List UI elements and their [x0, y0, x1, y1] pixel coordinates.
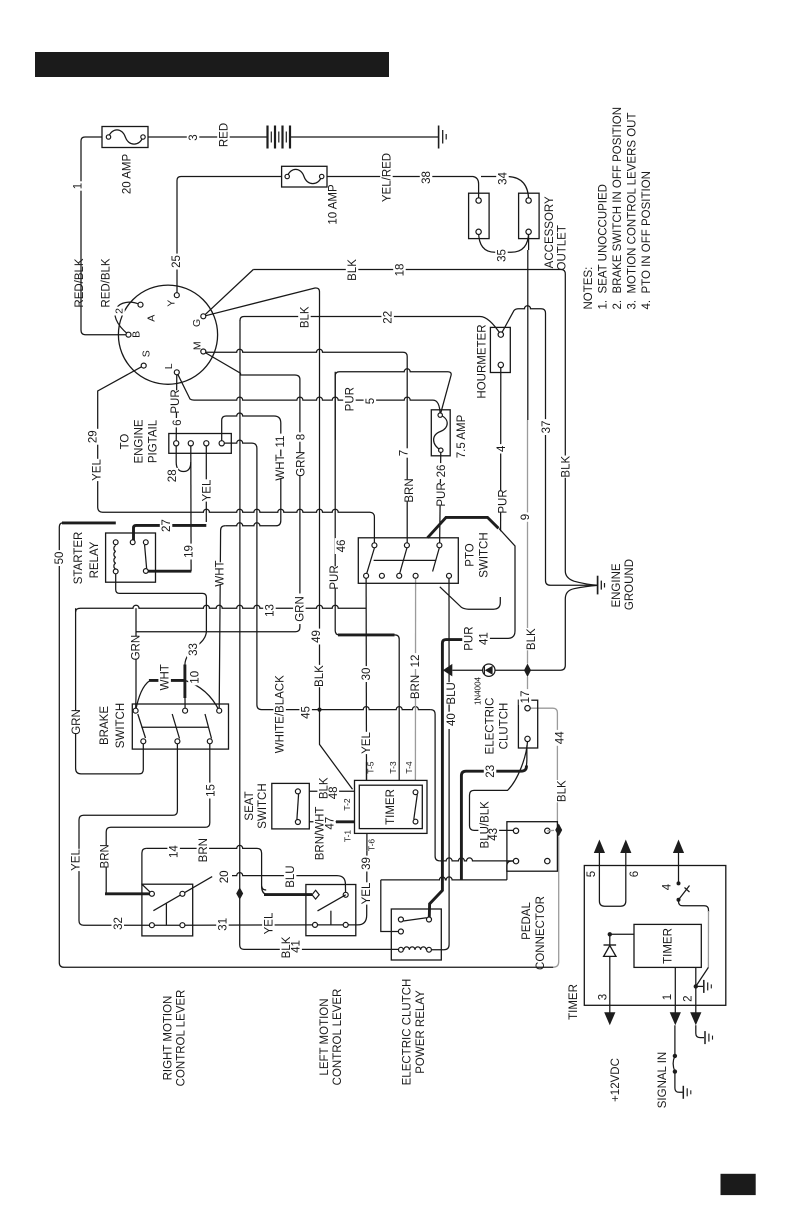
svg-text:GRN: GRN — [294, 596, 306, 622]
svg-text:G: G — [191, 319, 203, 327]
svg-text:GRN: GRN — [296, 451, 308, 477]
svg-text:48: 48 — [328, 786, 340, 799]
wire 20 BLU: right lever blade to left lever TR — [153, 877, 212, 911]
wire 1 RED/BLK fuse20 to ignition B — [81, 137, 129, 335]
wire YEL 27 pigtail pin3 to relay — [205, 446, 207, 523]
diamond junction on gray 9 wire — [524, 664, 531, 678]
wire 29 YEL ignition S to PTO top pin1 — [98, 366, 144, 513]
svg-text:RED/BLK: RED/BLK — [74, 258, 86, 308]
svg-text:1. SEAT UNOCCUPIED: 1. SEAT UNOCCUPIED — [598, 184, 610, 309]
svg-text:BRN/WHT: BRN/WHT — [315, 807, 327, 861]
svg-text:RED/BLK: RED/BLK — [101, 258, 113, 308]
svg-text:3: 3 — [188, 134, 200, 140]
svg-text:41: 41 — [291, 940, 303, 953]
svg-text:50: 50 — [54, 552, 66, 565]
svg-text:7.5 AMP: 7.5 AMP — [456, 414, 468, 458]
svg-text:BLK: BLK — [347, 259, 359, 281]
svg-text:T-2: T-2 — [342, 798, 352, 811]
wire 14 BRN: right lever to left lever — [142, 848, 152, 893]
svg-text:NOTES:: NOTES: — [583, 267, 595, 310]
svg-text:15: 15 — [205, 784, 217, 797]
svg-text:2: 2 — [683, 995, 695, 1001]
svg-text:37: 37 — [541, 421, 553, 434]
wire 49 BLK ignition G to timer T-2 — [203, 288, 352, 789]
svg-text:GROUND: GROUND — [624, 559, 636, 610]
fuse F1 20 AMP — [102, 127, 148, 148]
svg-text:10 AMP: 10 AMP — [328, 184, 340, 225]
wire 22 BLK ignition to hourmeter — [240, 317, 501, 335]
wire 25 fuse10 to ignition Y — [177, 177, 282, 296]
engine pigtail connector J1 — [169, 434, 232, 454]
svg-text:WHT: WHT — [275, 454, 287, 480]
battery B1 — [266, 126, 268, 149]
svg-text:4: 4 — [496, 445, 508, 452]
svg-text:2. BRAKE SWITCH IN OFF POSITI: 2. BRAKE SWITCH IN OFF POSITION — [612, 107, 624, 310]
brake actuator: WHT bar and linkages — [136, 681, 149, 711]
seat switch S4 — [272, 783, 310, 829]
wire 45 WHITE/BLACK pigtail pin4 to clutch power relay coil — [224, 440, 261, 709]
svg-text:PUR: PUR — [464, 626, 476, 650]
hourmeter M1 — [490, 327, 510, 372]
svg-text:ENGINE: ENGINE — [133, 419, 145, 463]
jumper 2 ignition A-B — [115, 302, 141, 335]
svg-text:YEL/RED: YEL/RED — [382, 153, 394, 202]
svg-text:BLK: BLK — [560, 456, 572, 478]
svg-text:32: 32 — [113, 917, 125, 930]
chassis ground symbol — [438, 126, 440, 149]
svg-text:TIMER: TIMER — [663, 928, 675, 964]
PTO switch flag outline — [428, 517, 499, 537]
engine ground symbol — [597, 576, 599, 595]
svg-text:OUTLET: OUTLET — [557, 225, 569, 270]
svg-text:5: 5 — [586, 871, 598, 877]
timer module inner TIMER box — [634, 924, 701, 967]
junction 45/49 — [317, 708, 321, 712]
svg-text:6: 6 — [629, 871, 641, 877]
svg-text:3: 3 — [598, 994, 610, 1000]
wire: relay contact / pedal BL node — [381, 877, 507, 880]
brake switch S2 — [132, 704, 228, 749]
relay K2 coil — [404, 947, 410, 950]
svg-text:46: 46 — [336, 540, 348, 553]
svg-text:CONTROL LEVER: CONTROL LEVER — [332, 989, 344, 1086]
wire 13 bus — [76, 608, 81, 612]
svg-text:YEL: YEL — [361, 882, 373, 904]
svg-text:2: 2 — [114, 308, 126, 314]
diode D1 1N4004 — [483, 664, 495, 676]
svg-text:CONTROL LEVER: CONTROL LEVER — [176, 990, 188, 1087]
svg-text:39: 39 — [361, 857, 373, 870]
svg-text:26: 26 — [436, 465, 448, 478]
svg-text:STARTER: STARTER — [73, 532, 85, 585]
wire BLK41: bus to relay coil — [244, 948, 399, 950]
wire 34 jumper accessory — [481, 177, 529, 201]
svg-text:40: 40 — [446, 713, 458, 726]
svg-text:T-1: T-1 — [343, 830, 353, 843]
gray 44 wire lower part to border corner — [553, 837, 559, 968]
svg-text:YEL: YEL — [263, 912, 275, 934]
svg-text:PUR: PUR — [329, 565, 341, 589]
wire 50 starter relay to bottom border — [62, 521, 116, 524]
fuse F2 10 AMP — [282, 166, 327, 187]
wire 40 BLU thick: PUR41 corner down to clutch power relay — [429, 640, 462, 917]
wire 33 to brake actuator — [185, 612, 207, 665]
labels — [71, 181, 84, 190]
svg-text:BRAKE: BRAKE — [99, 706, 111, 745]
wire 39 YEL: timer T-6 to lever row — [346, 850, 367, 925]
wire 18 BLK ignition G to engine ground — [203, 270, 253, 317]
svg-text:BLK: BLK — [557, 780, 569, 802]
timer T-6 stub — [366, 833, 368, 850]
svg-text:GRN: GRN — [71, 709, 83, 735]
wire PUR4/PUR41: hourmeter to 40BLU corner — [500, 365, 502, 531]
svg-text:T-5: T-5 — [366, 761, 376, 774]
svg-text:ACCESSORY: ACCESSORY — [544, 196, 556, 268]
svg-text:T-3: T-3 — [388, 761, 398, 774]
svg-text:1: 1 — [662, 994, 674, 1000]
svg-text:ELECTRIC CLUTCH: ELECTRIC CLUTCH — [402, 979, 414, 1086]
svg-text:SIGNAL IN: SIGNAL IN — [657, 1052, 669, 1108]
wire BRN 7 ignition M to PTO — [203, 349, 403, 352]
svg-text:SWITCH: SWITCH — [479, 532, 491, 577]
wire GRN2 to brake top-left pin — [135, 608, 137, 711]
svg-text:M: M — [192, 341, 204, 350]
module pin3 diode and +12VDC — [610, 934, 634, 945]
svg-text:20: 20 — [219, 871, 231, 884]
diamond on BLK bus — [236, 887, 243, 900]
wire 44 gray: clutch connector to pedal diamond and border — [530, 708, 557, 823]
svg-text:ENGINE: ENGINE — [611, 563, 623, 607]
svg-text:WHT: WHT — [214, 560, 226, 586]
svg-text:BRN: BRN — [410, 675, 422, 699]
svg-text:9: 9 — [520, 514, 532, 520]
wire PUR 26: fuse75 to PTO pin3 — [440, 450, 441, 545]
timer T-2 wire BLK48 from seat switch — [309, 790, 354, 792]
svg-text:12: 12 — [410, 655, 422, 668]
svg-text:YEL: YEL — [92, 459, 104, 481]
svg-text:5: 5 — [365, 398, 377, 404]
svg-text:A: A — [145, 315, 157, 322]
svg-text:S: S — [140, 350, 152, 357]
module pin4 with switch — [678, 853, 680, 883]
svg-text:WHT: WHT — [160, 664, 172, 690]
svg-text:47: 47 — [324, 817, 336, 830]
svg-text:B: B — [130, 331, 142, 338]
svg-text:1N4004: 1N4004 — [473, 676, 482, 705]
wire 43 BLU/BLK: clutch connector to pedal TL — [470, 742, 528, 831]
accessory outlet connectors — [469, 193, 490, 238]
wire 23 thick: clutch to pedal BL / relay contact — [525, 745, 528, 767]
svg-text:POWER RELAY: POWER RELAY — [415, 990, 427, 1074]
svg-text:BRN: BRN — [404, 478, 416, 502]
svg-text:LEFT MOTION: LEFT MOTION — [319, 998, 331, 1075]
svg-text:YEL: YEL — [70, 849, 82, 871]
wire PUR 46 down to timer T-3 — [335, 372, 339, 635]
svg-text:PTO: PTO — [465, 543, 477, 566]
starter relay K1 — [106, 533, 156, 582]
svg-text:8: 8 — [296, 434, 308, 440]
svg-text:RIGHT MOTION: RIGHT MOTION — [163, 996, 175, 1081]
diamond junction pedal 44 — [547, 829, 554, 831]
svg-text:SEAT: SEAT — [244, 791, 256, 820]
wire 38 YEL/RED fuse10 to accessory outlet — [327, 177, 479, 201]
svg-text:RED: RED — [219, 123, 231, 147]
module pin1 SIGNAL IN with switch to ground — [674, 967, 676, 1012]
svg-text:YEL: YEL — [201, 479, 213, 501]
svg-text:+12VDC: +12VDC — [610, 1058, 622, 1102]
svg-text:31: 31 — [217, 918, 229, 931]
electric clutch connector J2 — [518, 700, 537, 748]
svg-text:23: 23 — [485, 765, 497, 778]
svg-text:PEDAL: PEDAL — [521, 902, 533, 940]
pentagon wire segment: PUR41 right part — [489, 529, 515, 639]
svg-text:BLK: BLK — [314, 665, 326, 687]
left motion control lever switch S6 — [306, 885, 356, 936]
module pin5/pin6 U load — [599, 853, 625, 906]
wire BRN 12 gray: PTO pin4 to timer T-4 — [414, 576, 416, 781]
svg-text:TIMER: TIMER — [385, 789, 397, 825]
timer T-5 stub — [366, 762, 368, 781]
svg-text:TIMER: TIMER — [568, 984, 580, 1020]
svg-text:GRN: GRN — [131, 635, 143, 661]
module pin2 switch to ground — [696, 967, 709, 986]
svg-text:TO: TO — [120, 434, 132, 450]
svg-text:BLU: BLU — [446, 682, 458, 704]
svg-text:PUR: PUR — [497, 489, 509, 513]
wire 30 YEL: PTO pin1 to timer T-5 — [365, 576, 367, 781]
wire 32/31 YEL row — [152, 924, 183, 926]
svg-text:25: 25 — [171, 255, 183, 268]
wire GRN 8 branch from M — [203, 352, 300, 594]
BLK bus down left-center — [240, 320, 244, 949]
electric clutch power relay K2 — [391, 909, 441, 960]
svg-text:T-4: T-4 — [404, 761, 414, 774]
svg-text:11: 11 — [275, 436, 287, 448]
wire 37 BLK hourmeter to engine ground — [501, 309, 519, 335]
svg-text:28: 28 — [167, 469, 179, 482]
svg-text:43: 43 — [488, 828, 500, 841]
svg-text:PUR: PUR — [436, 482, 448, 506]
timer module box — [584, 866, 726, 1006]
wire 5 PUR ignition L to 7.5A fuse — [177, 372, 194, 400]
wire PUR46 upper branch to fuse75 — [335, 369, 451, 440]
wire 3 RED fuse20 to battery — [148, 136, 268, 138]
arrow into 40BLU — [443, 664, 452, 677]
svg-text:4: 4 — [662, 883, 674, 890]
timer T-1 wire BRN/WHT 47 from seat switch — [309, 821, 336, 823]
svg-text:14: 14 — [169, 845, 181, 858]
svg-text:WHITE/BLACK: WHITE/BLACK — [275, 675, 287, 753]
svg-text:Y: Y — [165, 300, 177, 307]
svg-text:13: 13 — [265, 604, 277, 617]
svg-text:45: 45 — [301, 706, 313, 719]
svg-text:4. PTO IN OFF POSITION: 4. PTO IN OFF POSITION — [641, 171, 653, 309]
svg-text:30: 30 — [361, 668, 373, 681]
svg-text:18: 18 — [395, 264, 407, 277]
svg-text:CLUTCH: CLUTCH — [499, 703, 511, 750]
wire YEL left: brake pin2 to lever 32 — [79, 741, 177, 925]
svg-text:PUR: PUR — [345, 387, 357, 411]
wire 11 WHT pigtail pin4 over to brake switch — [222, 416, 226, 442]
fuse F3 7.5 AMP — [431, 410, 450, 456]
svg-text:CONNECTOR: CONNECTOR — [535, 896, 547, 970]
svg-text:44: 44 — [554, 731, 566, 744]
svg-text:27: 27 — [161, 519, 173, 532]
svg-text:RELAY: RELAY — [89, 541, 101, 578]
svg-text:3. MOTION CONTROL LEVERS OUT: 3. MOTION CONTROL LEVERS OUT — [627, 112, 639, 309]
svg-text:ELECTRIC: ELECTRIC — [485, 698, 497, 755]
svg-text:29: 29 — [87, 430, 99, 443]
svg-text:49: 49 — [311, 630, 323, 643]
svg-text:1: 1 — [73, 183, 85, 189]
PTO switch S3 — [358, 538, 458, 584]
svg-text:6: 6 — [172, 419, 184, 425]
svg-text:22: 22 — [383, 311, 395, 324]
svg-text:10: 10 — [189, 671, 201, 684]
wire 6 PUR ignition L to pigtail pin1 — [175, 372, 178, 443]
svg-text:35: 35 — [497, 249, 509, 262]
starter relay coil — [114, 546, 116, 552]
svg-text:17: 17 — [520, 691, 532, 704]
svg-text:YEL: YEL — [361, 732, 373, 754]
ignition switch SW1 — [118, 285, 217, 384]
svg-text:T-6: T-6 — [367, 839, 377, 852]
svg-text:19: 19 — [184, 545, 196, 558]
PTO pin5 wire to diode node — [448, 578, 450, 723]
jumper 28 pigtail pins1-2 — [176, 446, 191, 472]
pedal connector J3 — [507, 822, 558, 872]
svg-text:BRN: BRN — [100, 844, 112, 868]
svg-text:38: 38 — [421, 171, 433, 184]
timer T1 (double border) — [355, 780, 428, 833]
wire 9 gray accessory to clutch connector — [528, 232, 530, 250]
svg-text:PIGTAIL: PIGTAIL — [148, 419, 160, 463]
wire BRN left: brake pin3 to right lever — [106, 741, 210, 894]
wire relay coil return to 33 — [116, 573, 207, 612]
right motion control lever switch S5 — [142, 884, 193, 936]
svg-text:L: L — [163, 363, 175, 369]
title bar — [35, 52, 389, 77]
svg-text:SWITCH: SWITCH — [257, 783, 269, 828]
svg-text:BRN: BRN — [198, 838, 210, 862]
svg-text:34: 34 — [498, 172, 510, 185]
svg-text:HOURMETER: HOURMETER — [477, 324, 489, 398]
wire 35 jumper accessory — [479, 232, 529, 253]
svg-text:33: 33 — [188, 643, 200, 656]
svg-text:BLK: BLK — [300, 306, 312, 328]
svg-text:BLK: BLK — [526, 628, 538, 650]
page number box — [721, 1174, 756, 1195]
diode wire: node to engine ground branch — [452, 669, 483, 671]
wire 19 pigtail pin2 to relay contact — [190, 446, 192, 572]
svg-text:41: 41 — [479, 632, 491, 645]
wire GRN bus13 to brake bottom pin1 — [76, 608, 144, 774]
svg-text:PUR: PUR — [170, 389, 182, 413]
svg-text:SWITCH: SWITCH — [115, 703, 127, 748]
svg-text:BLU: BLU — [285, 865, 297, 887]
wire battery to chassis ground — [290, 136, 439, 138]
svg-text:7: 7 — [399, 450, 411, 456]
svg-text:20 AMP: 20 AMP — [121, 154, 133, 195]
